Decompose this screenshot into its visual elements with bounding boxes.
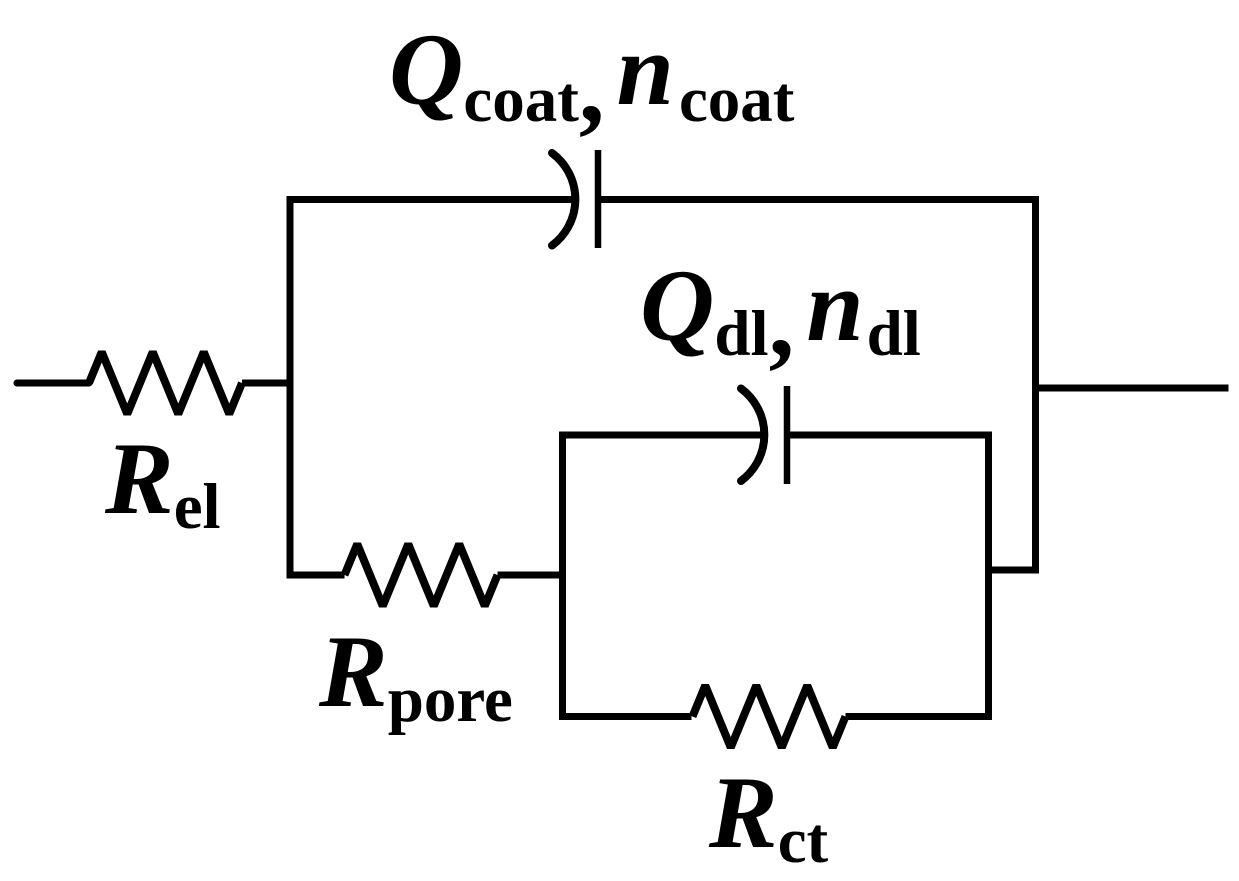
capacitor CPE Q_dl flat plate bbox=[784, 386, 791, 484]
wire: R_pore branch from node A bbox=[287, 572, 345, 579]
wire: R_pore to inner box left side bbox=[498, 572, 567, 579]
capacitor CPE Q_dl curved plate bbox=[741, 389, 764, 482]
wire: outer left vertical + top-left corner + top wire to CPE1 bbox=[290, 200, 574, 576]
wire: R_el to node A bbox=[242, 380, 290, 387]
wire: CPE1 to top-right corner + outer right vertical bbox=[598, 200, 1036, 571]
wire: input lead left bbox=[17, 380, 89, 387]
capacitor CPE Q_coat curved plate bbox=[552, 153, 575, 246]
wire: R_ct to inner box bottom-right corner bbox=[846, 713, 993, 720]
resistor R_el bbox=[89, 352, 242, 414]
svg-text:Qcoat,ncoat: Qcoat,ncoat bbox=[389, 13, 795, 144]
resistor R_pore bbox=[345, 544, 498, 606]
svg-text:Qdl,ndl: Qdl,ndl bbox=[640, 249, 921, 378]
wire: inner box left vertical + top-left corner to CPE2 bbox=[563, 435, 763, 717]
wire: jog connecting outer right vertical to inner box bbox=[985, 567, 1039, 574]
capacitor CPE Q_coat flat plate bbox=[595, 150, 602, 248]
resistor R_ct bbox=[693, 686, 846, 748]
wire: output lead right bbox=[1032, 385, 1229, 392]
svg-text:Rct: Rct bbox=[708, 756, 829, 877]
wire: CPE2 to inner box right vertical bbox=[787, 435, 989, 717]
svg-text:Rel: Rel bbox=[104, 422, 221, 543]
wire: inner box bottom left segment bbox=[559, 713, 692, 720]
svg-text:Rpore: Rpore bbox=[318, 615, 513, 736]
